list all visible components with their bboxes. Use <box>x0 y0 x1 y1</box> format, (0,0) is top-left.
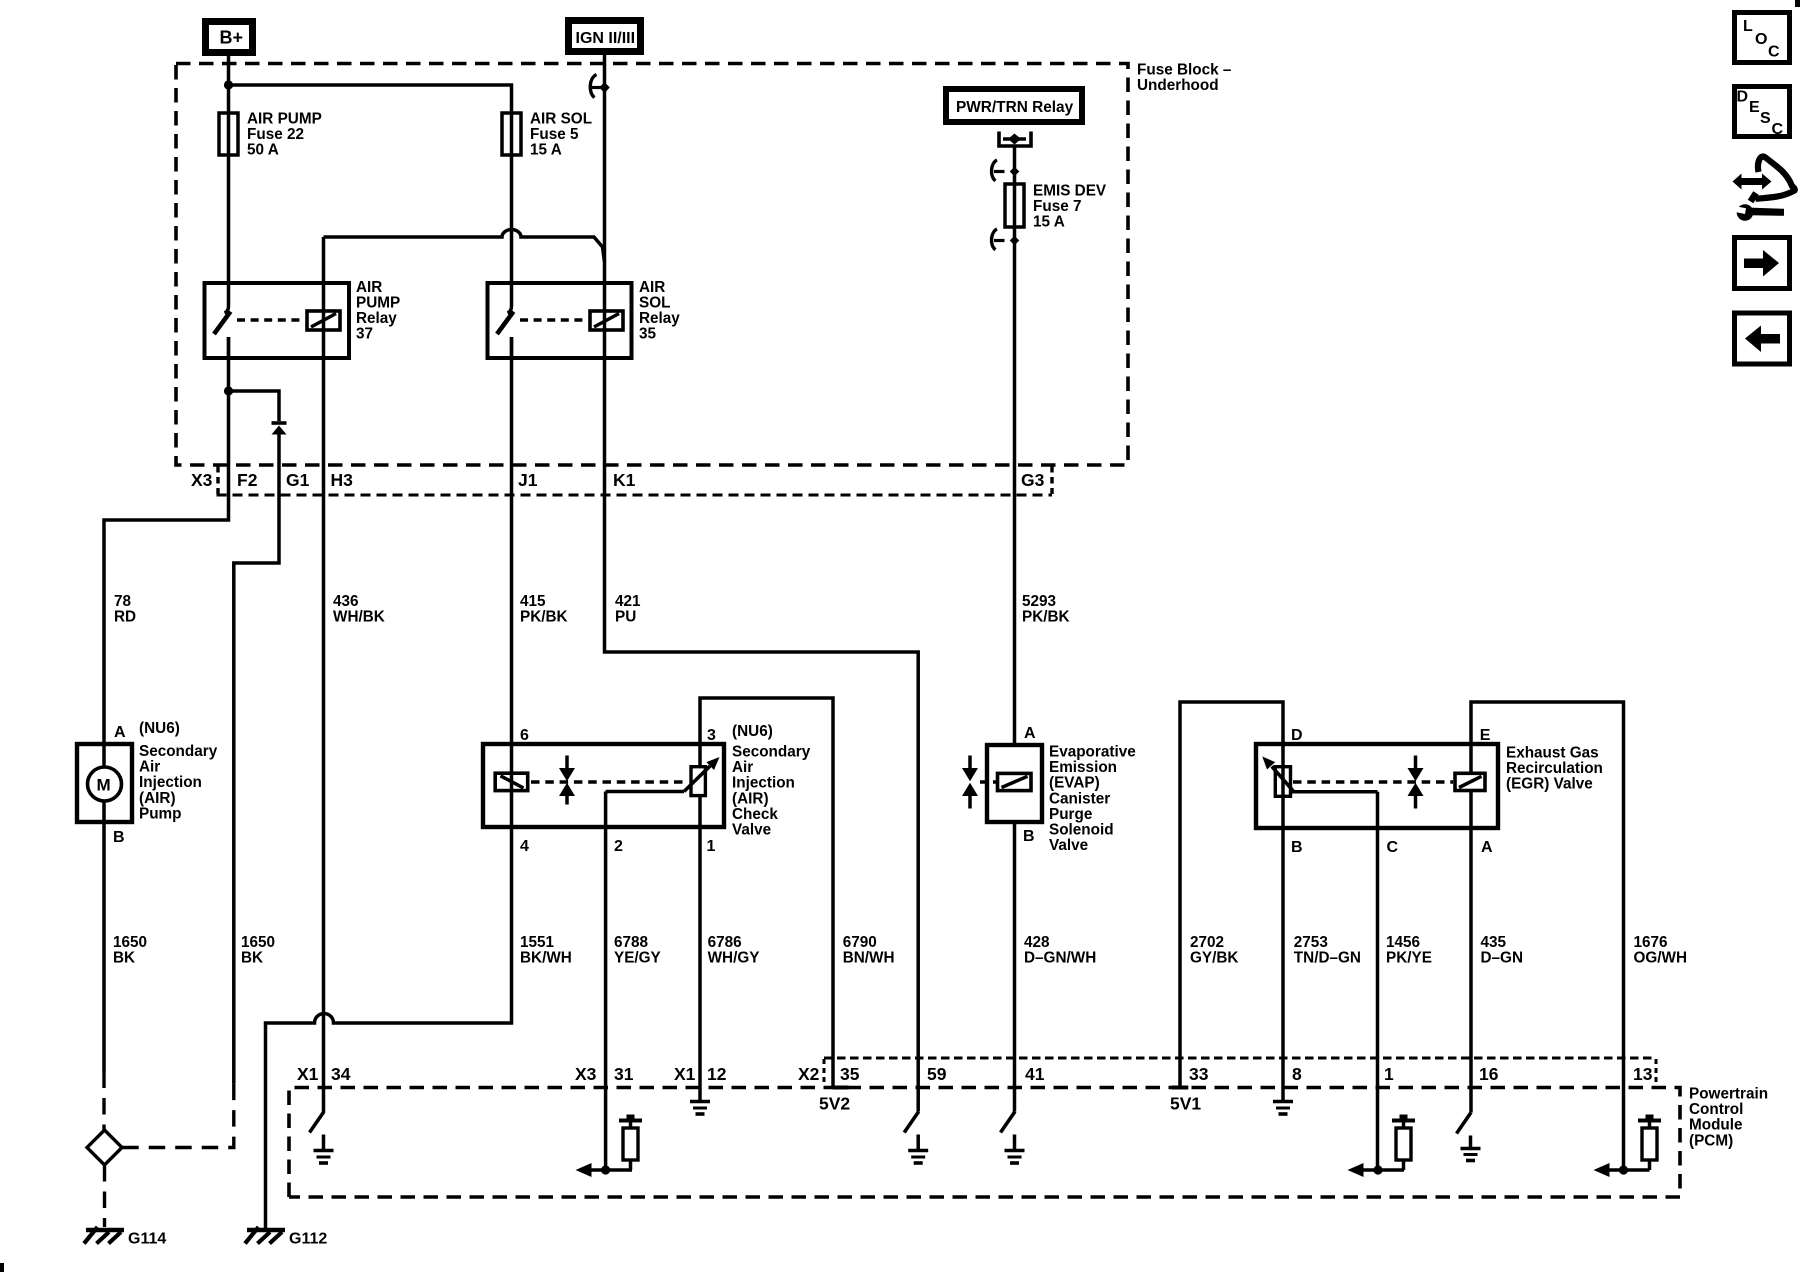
svg-text:12: 12 <box>707 1064 727 1084</box>
svg-text:Powertrain: Powertrain <box>1689 1086 1768 1103</box>
svg-text:(NU6): (NU6) <box>732 723 773 740</box>
relay box PWR/TRN Relay <box>946 89 1082 122</box>
svg-text:1: 1 <box>1384 1064 1394 1084</box>
svg-text:B+: B+ <box>220 28 244 48</box>
svg-text:(AIR): (AIR) <box>139 790 176 807</box>
connector row X3 riser <box>216 466 219 494</box>
splice S1 diamond <box>87 1130 122 1165</box>
svg-text:AIR: AIR <box>639 279 665 296</box>
wire check valve pin 3 to PCM pin 35 (6790) <box>700 698 833 1088</box>
svg-text:15 A: 15 A <box>530 142 562 159</box>
EGR bowtie arrows <box>1408 756 1424 809</box>
fuse F5 AIR SOL 15A <box>502 111 592 159</box>
wire label 436 WH/BK <box>333 593 385 626</box>
svg-text:IGN II/III: IGN II/III <box>576 30 636 47</box>
svg-text:Canister: Canister <box>1049 790 1110 807</box>
svg-text:(EVAP): (EVAP) <box>1049 775 1100 792</box>
svg-text:PK/BK: PK/BK <box>520 608 568 625</box>
icon box LOC <box>1735 13 1790 63</box>
svg-text:O: O <box>1755 31 1767 48</box>
svg-text:PUMP: PUMP <box>356 295 400 312</box>
svg-text:(EGR) Valve: (EGR) Valve <box>1506 776 1593 793</box>
connector C100 on IGN wire <box>590 75 610 98</box>
relay U1 AIR PUMP Relay 37 <box>205 279 401 358</box>
wire check valve pin 2 to PCM pin 31 (6788) <box>604 792 608 1171</box>
svg-text:5V1: 5V1 <box>1170 1094 1201 1114</box>
solenoid valve EVAP canister purge box <box>987 725 1136 854</box>
svg-text:B: B <box>1023 828 1035 845</box>
valve V1 AIR check valve box <box>483 723 811 855</box>
svg-text:8: 8 <box>1292 1064 1302 1084</box>
svg-text:Fuse 5: Fuse 5 <box>530 126 579 143</box>
wire label 1456 PK/YE <box>1386 934 1432 967</box>
svg-text:Valve: Valve <box>1049 837 1088 854</box>
svg-text:(PCM): (PCM) <box>1689 1132 1733 1149</box>
svg-text:M: M <box>97 776 111 795</box>
PCM 5V1 stub at pin 33 <box>1172 1086 1189 1090</box>
svg-text:GY/BK: GY/BK <box>1190 949 1238 966</box>
icon box next arrow <box>1735 238 1790 289</box>
svg-text:S: S <box>1760 110 1771 127</box>
svg-text:Fuse Block –: Fuse Block – <box>1137 62 1232 79</box>
connector C102 below fuse 7 <box>992 229 1020 250</box>
power terminal B+ <box>206 22 253 53</box>
svg-text:Valve: Valve <box>732 822 771 839</box>
svg-text:K1: K1 <box>613 470 636 490</box>
svg-text:Injection: Injection <box>139 774 202 791</box>
svg-text:G112: G112 <box>289 1231 327 1248</box>
solenoid coil in EVAP valve <box>998 773 1032 790</box>
svg-text:BK/WH: BK/WH <box>520 949 572 966</box>
pin label X1 34 <box>297 1064 351 1084</box>
fuse F22 AIR PUMP 50A <box>219 111 322 159</box>
svg-text:BK: BK <box>241 949 263 966</box>
svg-text:15 A: 15 A <box>1033 214 1065 231</box>
PCM internal switch and ground at pin 59 <box>904 1112 928 1164</box>
svg-text:Module: Module <box>1689 1117 1743 1134</box>
svg-text:37: 37 <box>356 326 373 343</box>
svg-text:J1: J1 <box>518 470 538 490</box>
PCM internal pullup and signal arrow at pin 13 <box>1594 1115 1662 1178</box>
wire label 435 D-GN <box>1481 934 1524 967</box>
svg-text:2: 2 <box>614 838 623 855</box>
connector terminal under PWR/TRN relay <box>999 132 1031 147</box>
svg-text:6786: 6786 <box>708 934 742 951</box>
wire dashed 1650 BK to splice diamond <box>122 1084 234 1148</box>
svg-text:H3: H3 <box>331 470 354 490</box>
wire B+ down to fuse 22 and relay 37 switch <box>225 56 229 313</box>
variable valve with arrow in check valve <box>606 757 720 796</box>
wire IGN II/III down then right to PCM pin 59 (circuit 421) <box>605 55 919 1112</box>
svg-text:Secondary: Secondary <box>139 743 218 760</box>
svg-text:1650: 1650 <box>113 934 147 951</box>
pin label X3 31 <box>575 1064 634 1084</box>
svg-text:X1: X1 <box>674 1064 696 1084</box>
valve V2 EGR box <box>1256 727 1603 856</box>
connector C101 above fuse 7 <box>992 160 1020 181</box>
wire relay 35 switch out to AIR check valve pin 6 then pin 4 to ground G112 (1551) <box>266 337 512 1228</box>
svg-text:WH/BK: WH/BK <box>333 608 385 625</box>
ground G112 <box>245 1227 327 1248</box>
relay U2 AIR SOL Relay 35 <box>488 279 681 358</box>
svg-text:Fuse 22: Fuse 22 <box>247 126 304 143</box>
wire IGN feed to relay coils with crossover hop <box>324 230 605 262</box>
svg-text:Relay: Relay <box>356 310 397 327</box>
svg-text:X3: X3 <box>575 1064 597 1084</box>
fuse F7 EMIS DEV 15A <box>1005 183 1107 231</box>
wire dashed splice to ground G114 <box>103 1165 106 1227</box>
wire label 428 D-GN/WH <box>1024 934 1096 967</box>
svg-text:B: B <box>113 829 125 846</box>
svg-text:2753: 2753 <box>1294 934 1328 951</box>
fuse block underhood dashed box <box>176 62 1232 466</box>
svg-text:436: 436 <box>333 593 359 610</box>
svg-text:421: 421 <box>615 593 641 610</box>
svg-text:A: A <box>1024 725 1036 742</box>
svg-text:A: A <box>114 724 126 741</box>
svg-text:435: 435 <box>1481 934 1507 951</box>
svg-text:D: D <box>1291 727 1303 744</box>
svg-text:BN/WH: BN/WH <box>843 949 895 966</box>
svg-text:3: 3 <box>707 727 716 744</box>
svg-text:F2: F2 <box>237 470 258 490</box>
node junction below relay 37 <box>224 386 233 395</box>
check valve bowtie arrows <box>559 756 575 805</box>
svg-text:Recirculation: Recirculation <box>1506 760 1603 777</box>
connector row lower dashed line <box>217 494 1053 497</box>
PCM internal pullup and signal arrow at pin 31 <box>576 1115 643 1178</box>
pin label X1 12 <box>674 1064 727 1084</box>
svg-text:6788: 6788 <box>614 934 649 951</box>
svg-text:PU: PU <box>615 608 636 625</box>
svg-text:(AIR): (AIR) <box>732 790 769 807</box>
svg-text:415: 415 <box>520 593 546 610</box>
PCM 5V2 stub at pin 35 <box>833 1086 849 1090</box>
svg-text:41: 41 <box>1025 1064 1045 1084</box>
svg-text:G114: G114 <box>128 1231 166 1248</box>
svg-text:C: C <box>1387 839 1399 856</box>
svg-text:PK/BK: PK/BK <box>1022 608 1070 625</box>
svg-text:Exhaust Gas: Exhaust Gas <box>1506 745 1599 762</box>
wire label 6786 WH/GY <box>708 934 760 967</box>
PCM internal switch and ground at pin 16 <box>1457 1113 1481 1161</box>
dashed link EVAP valve <box>980 780 996 784</box>
ground G114 <box>84 1227 166 1248</box>
icon shortcut arrows and wrench <box>1731 156 1795 220</box>
svg-text:Underhood: Underhood <box>1137 77 1219 94</box>
svg-text:35: 35 <box>639 326 657 343</box>
svg-text:SOL: SOL <box>639 295 670 312</box>
svg-text:5V2: 5V2 <box>819 1094 850 1114</box>
solenoid coil in EGR valve <box>1455 773 1485 790</box>
wire EGR pin E to PCM pin 13 (435/1676) <box>1471 702 1624 1170</box>
wire branch B+ to AIR SOL fuse 5 <box>229 85 512 313</box>
svg-text:1456: 1456 <box>1386 934 1420 951</box>
wire EGR pin A down to PCM pin 16 <box>1469 791 1473 1113</box>
svg-text:G1: G1 <box>286 470 310 490</box>
svg-text:G3: G3 <box>1021 470 1045 490</box>
PCM internal ground at pin 8 <box>1273 1088 1293 1115</box>
icon box back arrow <box>1735 313 1790 364</box>
svg-text:E: E <box>1480 727 1491 744</box>
wire pump B to splice (1650) <box>102 822 106 1072</box>
wire relay 37 coil to PCM pin 34 (circuit 436) <box>322 237 326 1112</box>
wire label 2702 GY/BK <box>1190 934 1238 967</box>
svg-text:TN/D–GN: TN/D–GN <box>1294 949 1361 966</box>
wire label 5293 PK/BK <box>1022 593 1070 626</box>
svg-text:C: C <box>1768 44 1780 61</box>
svg-text:1650: 1650 <box>241 934 275 951</box>
svg-text:X1: X1 <box>297 1064 319 1084</box>
svg-text:78: 78 <box>114 593 132 610</box>
svg-text:16: 16 <box>1479 1064 1499 1084</box>
EVAP bowtie arrows <box>962 756 978 809</box>
svg-text:59: 59 <box>927 1064 947 1084</box>
power terminal IGN II/III <box>569 21 641 52</box>
svg-text:Control: Control <box>1689 1101 1743 1118</box>
svg-text:4: 4 <box>520 838 529 855</box>
svg-text:(NU6): (NU6) <box>139 720 180 737</box>
solenoid coil in check valve <box>495 773 528 790</box>
EGR variable valve with arrow <box>1262 757 1377 797</box>
svg-text:2702: 2702 <box>1190 934 1224 951</box>
wire check valve pin 1 to PCM pin 12 (6786) <box>698 796 702 1088</box>
diode D1 on G1 branch <box>229 391 287 1084</box>
svg-text:PWR/TRN Relay: PWR/TRN Relay <box>956 99 1074 116</box>
svg-text:D–GN/WH: D–GN/WH <box>1024 949 1096 966</box>
connector row G3 riser <box>1050 466 1053 494</box>
wire label 78 RD <box>114 593 136 626</box>
svg-text:D–GN: D–GN <box>1481 949 1524 966</box>
svg-text:Check: Check <box>732 806 778 823</box>
svg-text:WH/GY: WH/GY <box>708 949 760 966</box>
svg-text:Pump: Pump <box>139 805 182 822</box>
svg-text:C: C <box>1772 121 1784 138</box>
svg-text:Evaporative: Evaporative <box>1049 744 1136 761</box>
svg-text:Secondary: Secondary <box>732 744 811 761</box>
svg-text:Purge: Purge <box>1049 806 1092 823</box>
wire label 415 PK/BK <box>520 593 568 626</box>
svg-text:1551: 1551 <box>520 934 555 951</box>
dashed link check valve <box>531 780 688 784</box>
svg-text:X3: X3 <box>191 470 213 490</box>
wire EVAP pin B to PCM pin 41 (428) <box>1013 822 1017 1112</box>
wire label 421 PU <box>615 593 641 626</box>
wire label 1650 BK left <box>113 934 147 967</box>
PCM internal switch and ground at pin 34 <box>310 1112 334 1164</box>
svg-text:AIR SOL: AIR SOL <box>530 111 592 128</box>
svg-text:B: B <box>1291 839 1303 856</box>
svg-text:AIR PUMP: AIR PUMP <box>247 111 322 128</box>
wire label 1676 OG/WH <box>1634 934 1688 967</box>
svg-text:X2: X2 <box>798 1064 820 1084</box>
svg-text:PK/YE: PK/YE <box>1386 949 1432 966</box>
PCM connector X2 dashed band <box>824 1058 1656 1086</box>
svg-text:Injection: Injection <box>732 775 795 792</box>
svg-text:428: 428 <box>1024 934 1050 951</box>
wire label 1551 BK/WH <box>520 934 572 967</box>
svg-text:D: D <box>1737 89 1749 106</box>
pin label X2 35 <box>798 1064 860 1084</box>
svg-text:Fuse 7: Fuse 7 <box>1033 198 1081 215</box>
svg-text:OG/WH: OG/WH <box>1634 949 1688 966</box>
svg-text:RD: RD <box>114 608 136 625</box>
svg-text:50 A: 50 A <box>247 142 279 159</box>
node junction at B+ branch <box>224 80 233 89</box>
wire PCM pin 33 5V1 to EGR pin D and through to PCM pin 8 (2702/2753) <box>1180 702 1283 1088</box>
svg-text:6: 6 <box>520 727 529 744</box>
motor M1 secondary air injection pump <box>77 720 218 846</box>
svg-text:34: 34 <box>331 1064 351 1084</box>
icon box DESC <box>1735 87 1790 139</box>
svg-text:5293: 5293 <box>1022 593 1056 610</box>
svg-text:A: A <box>1481 839 1493 856</box>
svg-text:31: 31 <box>614 1064 634 1084</box>
svg-text:Air: Air <box>732 759 753 776</box>
svg-text:Emission: Emission <box>1049 759 1117 776</box>
svg-text:1676: 1676 <box>1634 934 1668 951</box>
svg-text:1: 1 <box>707 838 716 855</box>
dashed link EGR valve <box>1293 780 1453 784</box>
page corner mark bottom left <box>0 1263 4 1272</box>
wire relay 37 switch out to F2 then AIR pump (78 RD) <box>104 337 229 744</box>
svg-text:E: E <box>1749 99 1760 116</box>
wire label 6788 YE/GY <box>614 934 661 967</box>
svg-text:YE/GY: YE/GY <box>614 949 661 966</box>
svg-text:Solenoid: Solenoid <box>1049 822 1114 839</box>
svg-text:L: L <box>1743 18 1753 35</box>
svg-text:35: 35 <box>840 1064 860 1084</box>
svg-text:6790: 6790 <box>843 934 877 951</box>
svg-text:EMIS DEV: EMIS DEV <box>1033 183 1107 200</box>
PCM internal ground at pin 12 <box>690 1088 710 1115</box>
wire label 6790 BN/WH <box>843 934 895 967</box>
page corner mark top right <box>1795 0 1800 7</box>
svg-text:33: 33 <box>1189 1064 1209 1084</box>
svg-text:Relay: Relay <box>639 310 680 327</box>
svg-text:13: 13 <box>1633 1064 1653 1084</box>
svg-text:Air: Air <box>139 759 160 776</box>
wire PWR/TRN relay to EVAP solenoid pin A (5293) <box>1013 146 1017 744</box>
PCM powertrain control module dashed box <box>289 1086 1768 1198</box>
svg-text:BK: BK <box>113 949 135 966</box>
svg-text:AIR: AIR <box>356 279 382 296</box>
PCM internal switch and ground at pin 41 <box>1001 1112 1025 1164</box>
wire label 2753 TN/D-GN <box>1294 934 1361 967</box>
wire label 1650 BK right <box>241 934 275 967</box>
wire dashed pump lead to splice diamond <box>102 1072 105 1131</box>
wire EGR pin C to PCM pin 1 (1456) <box>1376 792 1380 1170</box>
PCM internal pullup and signal arrow at pin 1 <box>1348 1115 1416 1178</box>
